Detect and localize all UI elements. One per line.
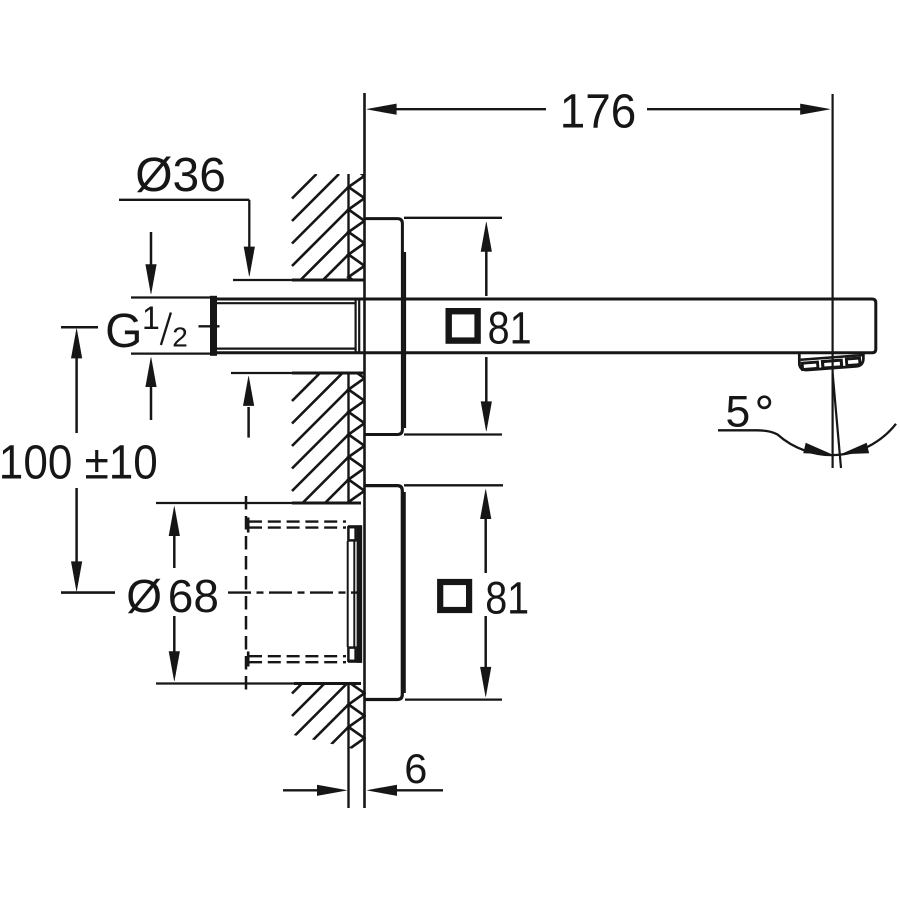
d68 dimension arrows	[169, 506, 180, 536]
spout square tube: top edge	[213, 299, 876, 353]
square symbol lower	[440, 582, 469, 610]
svg-text:1: 1	[142, 300, 160, 336]
svg-text:2: 2	[172, 321, 188, 352]
svg-text:6: 6	[404, 745, 427, 792]
dimension 6 (finished wall thickness)	[283, 789, 320, 791]
spray direction line tilted 5 deg	[833, 373, 841, 468]
svg-text:5: 5	[726, 387, 751, 436]
G1/2 extension lines	[131, 296, 211, 298]
svg-text:81: 81	[488, 303, 532, 354]
wall finished-surface line	[363, 93, 366, 808]
svg-text:100 ±10: 100 ±10	[0, 437, 158, 490]
G1/2 threaded inlet nipple	[210, 296, 217, 356]
wall hatch band lower (below valve hole)	[292, 660, 365, 784]
spout hole top edge (wall opening d36)	[233, 279, 294, 281]
valve body top wall (dashed double line)	[249, 520, 346, 522]
lower escutcheon plate (81x81)	[366, 486, 403, 700]
spout hole bottom edge	[231, 372, 294, 374]
valve hole bottom edge	[156, 682, 296, 684]
angle dimension 5 deg	[718, 424, 896, 455]
svg-text:176: 176	[560, 86, 637, 139]
lower 81 dimension line + arrows	[480, 489, 491, 519]
aerator / mousseur (5 deg)	[799, 354, 863, 371]
upper plate front-face step line	[404, 252, 406, 428]
lower plate front-face step line	[403, 492, 405, 693]
svg-text:Ø: Ø	[126, 570, 162, 622]
valve hole top edge (wall opening d68)	[156, 502, 294, 504]
upper plate 81 extension lines	[404, 217, 502, 219]
upper 81 dimension line + arrows	[481, 222, 492, 252]
lower plate 81 extension lines	[404, 484, 503, 486]
upper escutcheon plate (81x81)	[366, 219, 403, 435]
G1/2 outside arrows	[150, 232, 153, 266]
square symbol upper	[449, 311, 478, 340]
svg-text:G: G	[105, 305, 142, 358]
valve body bottom wall (dashed double line)	[249, 655, 346, 657]
dimension 176 (wall face to aerator axis)	[396, 108, 546, 110]
valve centre axis line (dash-dot)	[228, 591, 362, 593]
valve sleeve through wall	[347, 541, 349, 647]
svg-text:68: 68	[168, 570, 219, 622]
concealed valve body rear (dashed hidden outline)	[245, 496, 248, 691]
sleeve retaining clip bottom	[348, 648, 355, 661]
G1/2 leader	[199, 325, 220, 327]
svg-text:Ø36: Ø36	[135, 149, 226, 202]
sleeve retaining clip top	[348, 527, 355, 540]
wall plaster-layer divider line	[347, 174, 349, 280]
wall hatch band middle (between spout hole and valve hole)	[292, 345, 365, 536]
wall hatch band upper (above spout hole)	[292, 142, 365, 311]
dimension 100 plus/minus 10 (axis distance)	[61, 326, 98, 329]
d36 lower arrow	[247, 407, 250, 438]
svg-text:81: 81	[485, 573, 529, 624]
aerator axis / 176 right extension line	[831, 94, 833, 468]
